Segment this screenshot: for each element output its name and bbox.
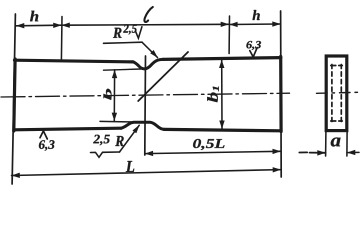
specimen bottom edge, right section [164,129,281,130]
label 6,3 (top) [246,41,261,50]
side view centerline (dash-dot) [317,92,359,93]
weld seam diagonal line [138,52,188,101]
label 0,5L [193,139,224,150]
a dimension extension lines [325,132,327,156]
label R (R2,5 callout) [113,28,122,38]
dimension line l (top middle) [62,23,230,26]
side view outer outline [326,56,347,131]
label a (side view) [331,138,341,147]
R2,5 leader arrow [142,42,158,57]
R2,5 leader underline [104,42,143,43]
dimension line h (top left) [16,24,62,27]
label b1 (rotated) [207,87,219,103]
top waist dip with fillets R2,5 [133,59,163,68]
2,5 R leader underline with roughness tick [91,152,120,157]
label h (right) [253,10,260,20]
specimen left edge (outline + extension lines) [12,14,15,184]
dimension line L [12,170,282,176]
weld / 0,5L vertical line at mid-length [144,56,147,155]
label 6,3 (bottom) [39,140,55,151]
bottom waist bump with fillets R2,5 [121,122,164,129]
label L [126,161,135,172]
a dimension line with outside arrows [310,152,326,154]
2,5 R leader arrow [120,125,140,152]
extension line between l and h right (x=229) [228,16,230,54]
label b (rotated) [104,89,112,100]
horizontal centerline (dash-dot) [1,93,290,97]
specimen right edge (outline + extension lines) [280,11,283,177]
dimension line h (top right) [229,23,280,26]
label R (bottom leader) [115,136,124,146]
b dimension extension lines [104,69,142,70]
specimen bottom edge, left section [14,128,121,130]
label 2,5 (bottom leader) [93,135,110,146]
label l [144,7,152,22]
dimension line b1 (vertical) [221,60,223,129]
roughness tick 6,3 (top surface) [250,48,257,57]
specimen top edge, left section [15,60,134,62]
dimension line b (vertical) [113,70,115,121]
label 2,5 (R2,5 callout) [123,25,137,35]
specimen top edge, right section [163,58,281,60]
a dimension leader tail dash [299,151,307,153]
roughness tick 6,3 (bottom surface) [40,131,47,139]
side view hidden (dashed) waist lines [331,65,333,122]
dimension line 0,5L [145,151,281,153]
extension line between h and l (x=61.5) [60,17,63,61]
label h (left) [30,11,38,22]
roughness tick (R2,5 callout) [136,27,142,38]
